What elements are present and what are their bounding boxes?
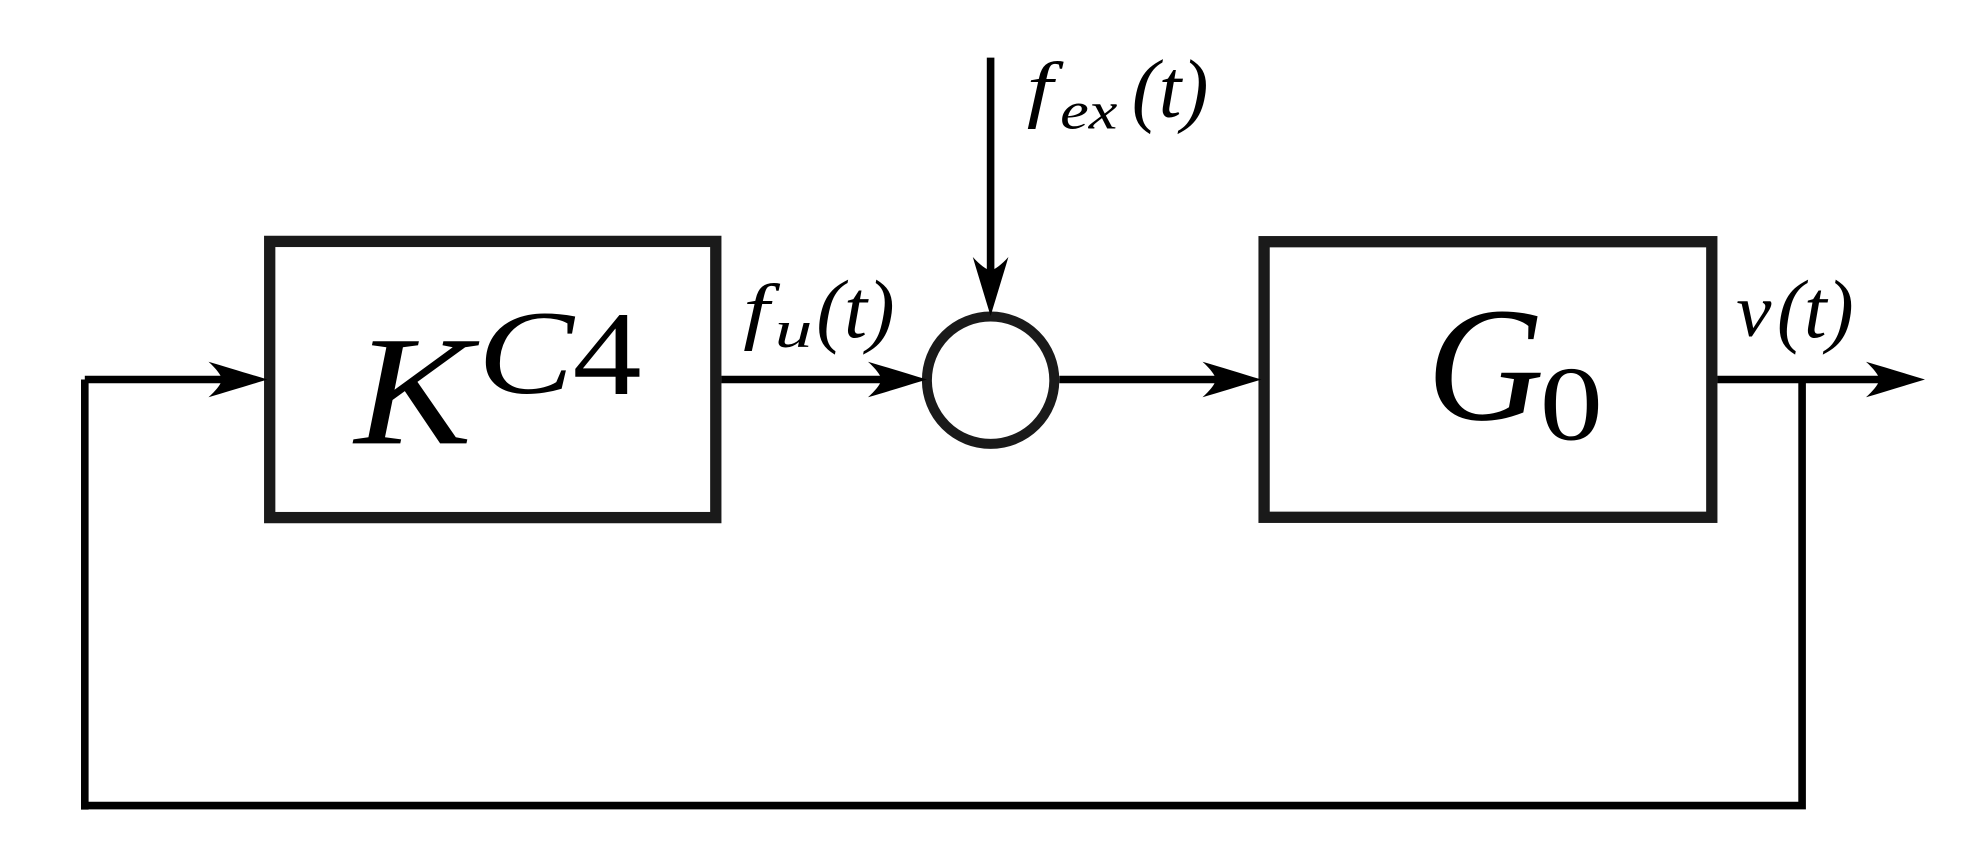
- svg-text:ex: ex: [1060, 81, 1117, 140]
- svg-text:K: K: [352, 304, 479, 477]
- svg-text:G: G: [1427, 275, 1545, 455]
- svg-text:(t): (t): [816, 263, 894, 355]
- svg-text:(t): (t): [1132, 43, 1209, 135]
- svg-text:4: 4: [573, 287, 642, 420]
- svg-text:v: v: [1736, 269, 1772, 353]
- svg-text:0: 0: [1540, 346, 1603, 463]
- svg-text:C: C: [478, 286, 576, 419]
- svg-text:(t): (t): [1777, 263, 1854, 355]
- svg-text:u: u: [775, 301, 813, 359]
